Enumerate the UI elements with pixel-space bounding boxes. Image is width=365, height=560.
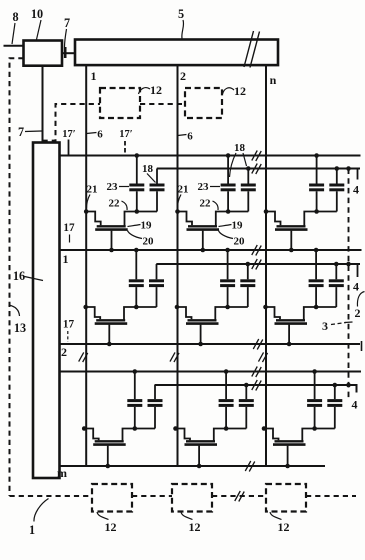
common rail row 1 (from C18 tops) bbox=[157, 168, 360, 170]
svg-text:2: 2 bbox=[180, 69, 186, 83]
junction dot: cap 18 on common rail (row m, col n) bbox=[333, 383, 338, 388]
junction dot: cap 23 on pixel node (row m, col n) bbox=[312, 426, 317, 431]
junction dot: cap 23 on pixel node (row m, col 1) bbox=[133, 426, 138, 431]
break on gate line 2 bbox=[253, 339, 259, 349]
svg-text:12: 12 bbox=[189, 520, 201, 534]
break on top rail bbox=[252, 151, 258, 161]
junction dot: source of Q9 on data line n bbox=[262, 426, 267, 431]
junction dot: cap 23 on rail (row 1, col 1) bbox=[135, 153, 140, 158]
leader for label 1 bottom bbox=[34, 499, 49, 522]
junction dot: cap 23 on pixel node (row 1, col 2) bbox=[226, 209, 231, 214]
junction dot: cap 23 on rail (row 2, col n) bbox=[314, 248, 319, 253]
svg-text:23: 23 bbox=[107, 181, 119, 193]
svg-text:22: 22 bbox=[109, 198, 121, 210]
break mark on data line 2 bbox=[170, 352, 175, 361]
data driver box 5 bbox=[75, 40, 278, 66]
leader for 12 bottom x=181 bbox=[181, 512, 193, 520]
capacitor 23 (row 1, col n) bbox=[309, 156, 324, 212]
storage rail above row m bbox=[60, 371, 362, 373]
leader for label 5 bbox=[182, 20, 184, 39]
svg-text:1: 1 bbox=[29, 523, 35, 537]
junction dot: gate of Q9 on gate line m bbox=[285, 464, 290, 469]
leader for label 7 left bbox=[25, 130, 42, 133]
junction dot: cap 23 on rail (row 1, col 2) bbox=[226, 153, 231, 158]
junction dot: gate of Q1 on gate line 1 bbox=[109, 248, 114, 253]
junction dot: cap 23 on pixel node (row 2, col 1) bbox=[134, 305, 139, 310]
pixel node wire (row 1, col 1) bbox=[137, 211, 157, 213]
capacitor 23 (row m, col n) bbox=[307, 372, 322, 429]
gate line row 2 bbox=[60, 343, 361, 345]
svg-text:n: n bbox=[270, 73, 277, 87]
leader 21 (cell 2) bbox=[178, 195, 182, 209]
storage line stub 17' (left) bbox=[68, 140, 70, 156]
leader 20 (cell 1) bbox=[128, 231, 143, 239]
TFT Q4 (row 2, column 1) : 19 channel / 20 gate bbox=[86, 307, 137, 344]
leader 22 (cell 1) bbox=[122, 201, 128, 210]
capacitor 23 (row 2, col 2) bbox=[220, 250, 235, 307]
end tick gate line 2 bbox=[361, 341, 363, 351]
svg-text:21: 21 bbox=[87, 184, 98, 196]
dashed sync bus to sensor row (top) bbox=[43, 104, 101, 141]
junction dot: cap 23 on rail (row m, col n) bbox=[312, 369, 317, 374]
svg-text:4: 4 bbox=[353, 183, 359, 197]
junction dot: gate of Q7 on gate line m bbox=[106, 464, 111, 469]
TFT Q3 (row 1, column n) : 19 channel / 20 gate bbox=[266, 212, 317, 251]
data line column n (6) bbox=[265, 65, 267, 466]
leader for 12 bottom x=270 bbox=[270, 512, 282, 520]
storage capacitor 18 (row 2, col 2) bbox=[240, 264, 255, 307]
storage capacitor 18 (row m, col 1) bbox=[148, 385, 163, 429]
junction dot: gate of Q8 on gate line m bbox=[197, 464, 202, 469]
storage capacitor 18 (row 1, col n) bbox=[329, 169, 344, 212]
svg-text:2: 2 bbox=[61, 345, 67, 359]
connector tick 7 bbox=[64, 47, 67, 58]
wire: input line to controller 10 bbox=[4, 45, 24, 47]
leader for 12 bottom x=97 bbox=[97, 512, 109, 520]
pixel node wire (row m, col n) bbox=[315, 428, 335, 430]
data line column 1 (6) bbox=[85, 65, 87, 466]
junction dot: cap 18 on common rail (row 1, col 2) bbox=[246, 166, 251, 171]
dashed bus segment between sensors 12 bbox=[140, 103, 185, 105]
dashed sensor box 12 (bottom-right) bbox=[266, 484, 306, 512]
svg-text:6: 6 bbox=[97, 129, 103, 141]
leader for 12 top-right bbox=[223, 88, 235, 94]
dashed bus tail bbox=[306, 495, 356, 497]
leader 20 (cell 2) bbox=[219, 231, 234, 239]
leader 23 (cell 1) bbox=[119, 186, 129, 188]
junction dot: cap 23 on pixel node (row 1, col 1) bbox=[135, 209, 140, 214]
junction dot: gate of Q5 on gate line 2 bbox=[198, 342, 203, 347]
break mark on box 5 bbox=[244, 31, 254, 67]
junction dot: cap 23 on rail (row m, col 2) bbox=[224, 369, 229, 374]
dashed bus to bottom sensor row bbox=[10, 495, 93, 497]
controller box 10 bbox=[24, 41, 63, 66]
TFT Q6 (row 2, column n) : 19 channel / 20 gate bbox=[266, 307, 317, 344]
svg-text:3: 3 bbox=[322, 319, 328, 333]
storage capacitor 18 (row m, col n) bbox=[327, 385, 342, 429]
TFT Q2 (row 1, column 2) : 19 channel / 20 gate bbox=[178, 212, 229, 251]
junction dot: source of Q8 on data line 2 bbox=[173, 426, 178, 431]
leader 21 (cell 1) bbox=[87, 195, 91, 209]
junction dot: gate of Q3 on gate line 1 bbox=[289, 248, 294, 253]
junction dot: gate of Q2 on gate line 1 bbox=[201, 248, 206, 253]
dashed bus segment bbox=[132, 495, 172, 497]
svg-text:4: 4 bbox=[352, 398, 358, 412]
dashed sensor box 12 (top-left) bbox=[100, 88, 140, 118]
svg-text:17ʹ: 17ʹ bbox=[119, 129, 133, 140]
junction dot: cap 23 on pixel node (row 2, col 2) bbox=[225, 305, 230, 310]
gate line row m bbox=[60, 465, 326, 467]
pixel node wire (row 1, col 2) bbox=[228, 211, 248, 213]
terminal stub 4 row 1 bbox=[357, 169, 359, 180]
leader for label 8 bbox=[12, 23, 15, 44]
junction dot: cap 23 on pixel node (row m, col 2) bbox=[224, 426, 229, 431]
dashed sensor box 12 (top-right) bbox=[185, 88, 222, 118]
junction dot: source of Q3 on data line n bbox=[264, 209, 269, 214]
tick on line 3 at leader bbox=[345, 321, 353, 324]
leader for label 16 bbox=[25, 277, 44, 281]
common rail row m bbox=[155, 385, 357, 393]
leader for label 2 right bbox=[357, 292, 364, 307]
leader for label 10 bbox=[37, 20, 42, 40]
break on gate line 1 bbox=[252, 245, 258, 255]
svg-text:12: 12 bbox=[234, 84, 246, 98]
junction dot: cap 23 on pixel node (row 1, col n) bbox=[314, 209, 319, 214]
svg-text:19: 19 bbox=[141, 220, 153, 232]
svg-text:12: 12 bbox=[150, 83, 162, 97]
junction dot: cap 18 on common rail (row 2, col n) bbox=[334, 262, 339, 267]
dashed control line 13 (left) bbox=[10, 58, 24, 496]
storage capacitor 18 (row 2, col n) bbox=[329, 264, 344, 307]
leader for label 7 top bbox=[65, 29, 67, 47]
svg-text:20: 20 bbox=[234, 236, 246, 248]
storage capacitor 18 (row 1, col 1) bbox=[150, 169, 165, 212]
break on common rail m bbox=[252, 380, 258, 390]
dashed bus segment with break bbox=[212, 495, 266, 497]
junction dot: cap 23 on rail (row m, col 1) bbox=[133, 369, 138, 374]
svg-text:12: 12 bbox=[105, 520, 117, 534]
svg-text:16: 16 bbox=[13, 269, 25, 283]
svg-text:17: 17 bbox=[63, 319, 75, 331]
data line column 2 (6) bbox=[177, 65, 179, 466]
junction dot: source of Q4 on data line 1 bbox=[83, 305, 88, 310]
junction dot: cap 18 on common rail (row m, col 2) bbox=[244, 383, 249, 388]
pixel node wire (row 2, col 1) bbox=[136, 306, 156, 308]
pixel node wire (row 2, col 2) bbox=[228, 306, 248, 308]
svg-text:23: 23 bbox=[198, 181, 210, 193]
break on rail above row m bbox=[252, 367, 258, 377]
dashed sensor box 12 (bottom-middle) bbox=[172, 484, 212, 512]
TFT Q5 (row 2, column 2) : 19 channel / 20 gate bbox=[177, 307, 228, 344]
scan driver box 16 bbox=[33, 143, 60, 479]
leader for 18 cell 1 bbox=[147, 174, 156, 183]
junction dot: gate of Q4 on gate line 2 bbox=[107, 342, 112, 347]
svg-text:1: 1 bbox=[91, 69, 97, 83]
storage capacitor 18 (row 2, col 1) bbox=[149, 264, 164, 307]
dashed common electrode line 3 bbox=[348, 169, 350, 400]
svg-text:10: 10 bbox=[31, 7, 43, 21]
dashed sensor box 12 (bottom-left) bbox=[92, 484, 132, 512]
svg-text:m: m bbox=[57, 466, 67, 480]
svg-text:18: 18 bbox=[142, 163, 154, 175]
svg-text:17ʹ: 17ʹ bbox=[62, 129, 76, 140]
svg-text:1: 1 bbox=[63, 252, 69, 266]
junction dot: source of Q5 on data line 2 bbox=[175, 305, 180, 310]
svg-text:8: 8 bbox=[12, 10, 18, 24]
TFT Q1 (row 1, column 1) : 19 channel / 20 gate bbox=[86, 212, 137, 251]
break on common rail 2 bbox=[252, 259, 258, 269]
pixel node wire (row 2, col n) bbox=[316, 306, 336, 308]
svg-text:17: 17 bbox=[63, 222, 75, 234]
TFT Q7 (row m, column 1) : 19 channel / 20 gate bbox=[84, 429, 135, 467]
leader for 17 row 1 bbox=[69, 235, 71, 243]
svg-text:4: 4 bbox=[353, 280, 359, 294]
junction dot: source of Q7 on data line 1 bbox=[82, 426, 87, 431]
capacitor 23 (row 1, col 2) bbox=[221, 156, 236, 212]
junction dot: cap 23 on pixel node (row 2, col n) bbox=[314, 305, 319, 310]
capacitor 23 (row m, col 1) bbox=[127, 372, 142, 429]
leader for label 13 bbox=[9, 305, 20, 316]
svg-text:18: 18 bbox=[234, 142, 246, 154]
svg-text:7: 7 bbox=[18, 125, 24, 139]
storage rail 17 prime (row-1 top rail) bbox=[60, 155, 361, 157]
svg-text:7: 7 bbox=[64, 16, 70, 30]
common rail row 2 bbox=[156, 263, 360, 265]
svg-text:5: 5 bbox=[178, 7, 184, 21]
junction dot: cap 23 on rail (row 2, col 2) bbox=[225, 248, 230, 253]
break mark on data line n bbox=[258, 352, 263, 361]
TFT Q9 (row m, column n) : 19 channel / 20 gate bbox=[264, 429, 315, 467]
junction dot: cap 18 on common rail (row 2, col 2) bbox=[246, 262, 251, 267]
leader 23 (cell 2) bbox=[210, 186, 220, 188]
svg-text:22: 22 bbox=[200, 198, 212, 210]
junction dots of line 3 on common rails bbox=[346, 166, 351, 171]
break on common rail 1 bbox=[252, 164, 258, 174]
svg-text:19: 19 bbox=[232, 220, 244, 232]
TFT Q8 (row m, column 2) : 19 channel / 20 gate bbox=[176, 429, 227, 467]
svg-text:12: 12 bbox=[278, 520, 290, 534]
leader 22 (cell 2) bbox=[213, 201, 219, 210]
capacitor 23 (row m, col 2) bbox=[219, 372, 234, 429]
svg-text:20: 20 bbox=[143, 236, 155, 248]
junction dot: gate of Q6 on gate line 2 bbox=[287, 342, 292, 347]
wire: bus link 7 between box 10 and box 5 bbox=[62, 52, 75, 54]
junction dot: cap 23 on rail (row 1, col n) bbox=[314, 153, 319, 158]
storage line stub 17' (second) bbox=[124, 141, 126, 155]
leader 19 (cell 2) bbox=[219, 225, 232, 227]
junction dot: cap 18 on common rail (row 1, col n) bbox=[335, 166, 340, 171]
storage capacitor 18 (row 1, col 2) bbox=[241, 169, 256, 212]
pixel node wire (row m, col 2) bbox=[226, 428, 246, 430]
capacitor 23 (row 1, col 1) bbox=[129, 156, 144, 212]
junction dot: cap 23 on rail (row 2, col 1) bbox=[134, 248, 139, 253]
capacitor 23 (row 2, col 1) bbox=[129, 250, 144, 307]
junction dot: source of Q6 on data line n bbox=[263, 305, 268, 310]
leader for 12 top-left bbox=[139, 88, 151, 94]
break on gate line m bbox=[245, 461, 251, 471]
gate line row 1 (17) bbox=[60, 249, 362, 251]
wire 7: controller to scan driver bbox=[42, 66, 44, 143]
leaders for 18 cell 2 bbox=[230, 153, 237, 177]
leader for 17 row 2 bbox=[67, 331, 69, 342]
svg-text:21: 21 bbox=[178, 184, 189, 196]
leader 19 (cell 1) bbox=[128, 225, 141, 227]
leader for label 3 bbox=[331, 323, 346, 325]
pixel node wire (row 1, col n) bbox=[317, 211, 337, 213]
junction dot: source of Q1 on data line 1 bbox=[84, 209, 89, 214]
pixel node wire (row m, col 1) bbox=[135, 428, 155, 430]
svg-text:6: 6 bbox=[187, 131, 193, 143]
svg-text:2: 2 bbox=[355, 306, 361, 320]
terminal stub 4 row 2 bbox=[357, 264, 359, 277]
svg-text:13: 13 bbox=[14, 321, 26, 335]
storage capacitor 18 (row m, col 2) bbox=[239, 385, 254, 429]
break mark on data line 1 bbox=[79, 352, 84, 361]
capacitor 23 (row 2, col n) bbox=[309, 250, 324, 307]
junction dot: source of Q2 on data line 2 bbox=[175, 209, 180, 214]
